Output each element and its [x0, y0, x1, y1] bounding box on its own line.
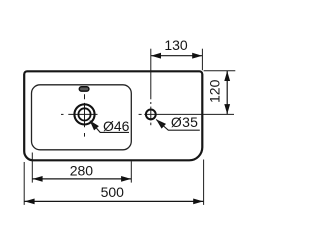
dimension 120 extension line top: [204, 70, 236, 72]
leader arrow O46: [90, 120, 129, 132]
dimension 500 extension lines: [24, 160, 203, 205]
washbasin outer outline: [24, 71, 202, 160]
svg-text:280: 280: [70, 163, 94, 179]
overflow slot: [79, 87, 89, 91]
dimension 500 line: [24, 199, 203, 205]
svg-text:500: 500: [101, 184, 125, 200]
tap hole O35 centerlines: [139, 49, 234, 126]
inner basin outline: [32, 85, 132, 150]
dimension 120 line: [224, 71, 230, 114]
leader arrow O35: [156, 119, 200, 130]
svg-text:Ø46: Ø46: [103, 118, 130, 134]
dimension 130 extension line right: [201, 49, 203, 70]
svg-text:Ø35: Ø35: [171, 114, 198, 130]
dimension 280 extension lines: [32, 153, 131, 183]
tap hole O35 circle: [146, 110, 156, 120]
dimension 280 line: [32, 176, 131, 182]
dimension 130 line: [151, 53, 203, 59]
faucet hole O46 centerlines: [61, 94, 98, 136]
svg-text:120: 120: [206, 79, 222, 103]
svg-text:130: 130: [164, 37, 188, 53]
faucet hole O46 circles: [74, 104, 94, 124]
